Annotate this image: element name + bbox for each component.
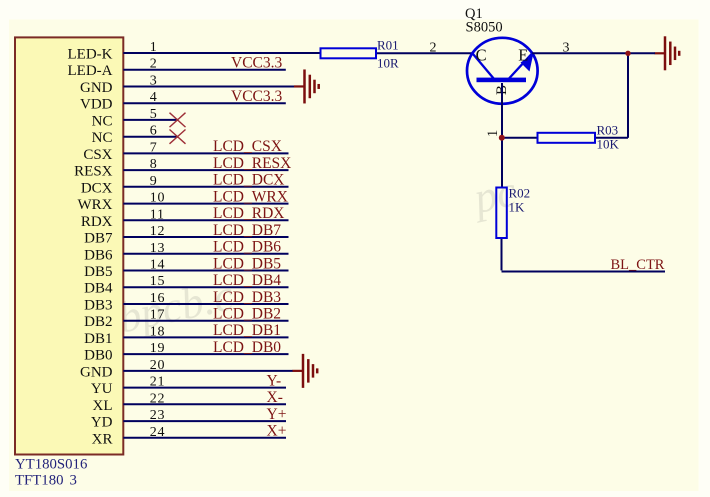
- svg-text:23: 23: [150, 408, 165, 423]
- svg-text:YD: YD: [91, 415, 113, 431]
- svg-text:22: 22: [150, 391, 165, 406]
- svg-text:8: 8: [150, 157, 158, 172]
- svg-text:1: 1: [150, 40, 158, 55]
- svg-text:C: C: [476, 45, 487, 64]
- svg-text:GND: GND: [80, 80, 113, 96]
- svg-text:VCC3.3: VCC3.3: [231, 55, 282, 72]
- svg-text:LCD_DB2: LCD_DB2: [213, 306, 281, 323]
- svg-text:VDD: VDD: [80, 97, 113, 113]
- svg-text:CSX: CSX: [83, 147, 112, 163]
- svg-text:GND: GND: [80, 364, 113, 380]
- svg-text:21: 21: [150, 375, 165, 390]
- svg-text:6: 6: [150, 124, 158, 139]
- svg-text:Y-: Y-: [267, 372, 282, 389]
- svg-text:LCD_DB0: LCD_DB0: [213, 339, 281, 356]
- svg-text:R02: R02: [509, 186, 531, 201]
- svg-text:YU: YU: [91, 381, 113, 397]
- svg-text:LCD_DB3: LCD_DB3: [213, 289, 281, 306]
- svg-text:LCD_DB1: LCD_DB1: [213, 322, 281, 339]
- svg-text:LCD_DB7: LCD_DB7: [213, 222, 281, 239]
- svg-text:XR: XR: [92, 431, 113, 447]
- svg-text:2: 2: [150, 57, 158, 72]
- svg-text:17: 17: [150, 308, 165, 323]
- svg-text:DB2: DB2: [84, 314, 112, 330]
- svg-text:TFT180: TFT180: [15, 472, 64, 488]
- svg-text:5: 5: [150, 107, 158, 122]
- svg-text:3: 3: [70, 472, 77, 488]
- svg-text:LCD_WRX: LCD_WRX: [213, 188, 288, 205]
- svg-text:E: E: [518, 45, 528, 64]
- svg-text:24: 24: [150, 425, 165, 440]
- svg-text:NC: NC: [92, 130, 113, 146]
- svg-text:DB0: DB0: [84, 348, 112, 364]
- svg-text:19: 19: [150, 341, 165, 356]
- svg-text:15: 15: [150, 274, 165, 289]
- svg-text:DB6: DB6: [84, 247, 113, 263]
- svg-text:16: 16: [150, 291, 165, 306]
- svg-text:DCX: DCX: [81, 180, 113, 196]
- svg-text:LCD_RESX: LCD_RESX: [213, 155, 291, 172]
- svg-text:LCD_DB5: LCD_DB5: [213, 255, 281, 272]
- svg-text:DB7: DB7: [84, 231, 113, 247]
- svg-text:1: 1: [485, 130, 501, 137]
- svg-text:LCD_RDX: LCD_RDX: [213, 205, 284, 222]
- svg-text:7: 7: [150, 140, 158, 155]
- svg-text:DB5: DB5: [84, 264, 112, 280]
- svg-text:LCD_DCX: LCD_DCX: [213, 172, 284, 189]
- svg-text:20: 20: [150, 358, 165, 373]
- svg-text:WRX: WRX: [78, 197, 113, 213]
- svg-text:DB1: DB1: [84, 331, 112, 347]
- svg-text:X+: X+: [267, 423, 287, 440]
- svg-text:LCD_DB6: LCD_DB6: [213, 239, 281, 256]
- svg-text:4: 4: [150, 90, 158, 105]
- svg-text:LED-A: LED-A: [68, 63, 113, 79]
- svg-text:LED-K: LED-K: [68, 47, 113, 63]
- svg-text:9: 9: [150, 174, 158, 189]
- svg-text:3: 3: [150, 74, 158, 89]
- svg-text:12: 12: [150, 224, 165, 239]
- svg-text:NC: NC: [92, 113, 113, 129]
- svg-text:2: 2: [430, 41, 437, 56]
- svg-text:14: 14: [150, 258, 165, 273]
- svg-text:18: 18: [150, 324, 165, 339]
- svg-text:Y+: Y+: [267, 406, 287, 423]
- svg-text:R01: R01: [377, 38, 399, 53]
- svg-text:1K: 1K: [509, 200, 526, 215]
- svg-text:R03: R03: [597, 123, 619, 138]
- svg-text:RESX: RESX: [74, 164, 113, 180]
- svg-text:DB4: DB4: [84, 281, 113, 297]
- svg-text:10R: 10R: [377, 56, 399, 71]
- svg-text:S8050: S8050: [466, 20, 503, 36]
- svg-text:VCC3.3: VCC3.3: [231, 88, 282, 105]
- svg-text:YT180S016: YT180S016: [15, 456, 87, 472]
- svg-text:LCD_DB4: LCD_DB4: [213, 272, 281, 289]
- svg-text:10: 10: [150, 191, 165, 206]
- svg-text:XL: XL: [93, 398, 113, 414]
- svg-text:11: 11: [150, 207, 165, 222]
- svg-text:DB3: DB3: [84, 298, 112, 314]
- svg-text:13: 13: [150, 241, 165, 256]
- svg-text:X-: X-: [267, 389, 283, 406]
- svg-text:LCD_CSX: LCD_CSX: [213, 138, 282, 155]
- svg-text:BL_CTR: BL_CTR: [611, 257, 665, 273]
- svg-text:RDX: RDX: [81, 214, 113, 230]
